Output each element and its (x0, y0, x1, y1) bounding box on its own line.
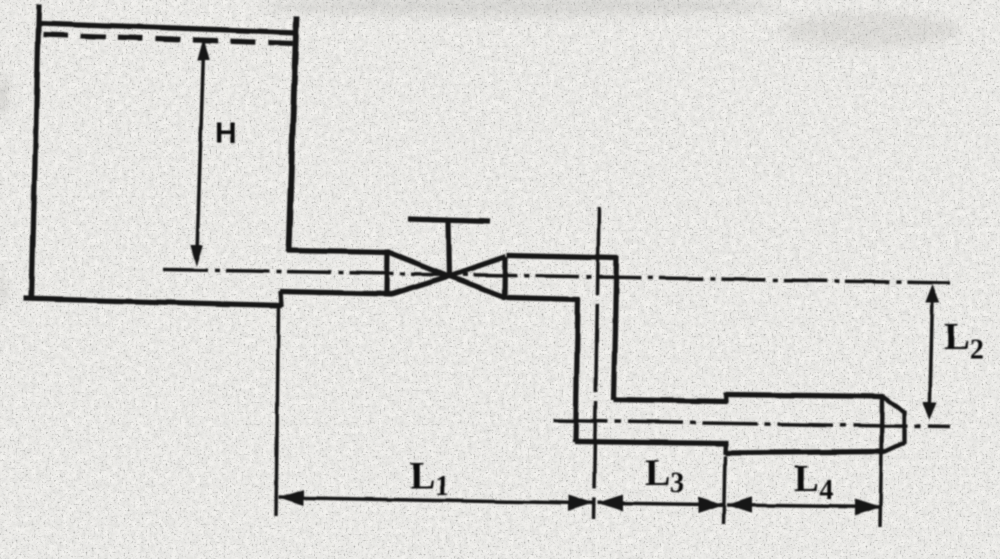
extension line at nozzle end (L4 right) (880, 452, 882, 527)
tank bottom to pipe step (281, 291, 282, 307)
extension line at elbow (L1/L3 boundary) (594, 207, 600, 519)
dimension L4 arrowhead right (855, 499, 880, 515)
nozzle end face (879, 395, 884, 452)
nozzle sleeve top wall (726, 395, 884, 397)
smudge top edge (260, 0, 780, 16)
pipe top wall tank to valve (287, 251, 388, 253)
dimension L4 line (727, 505, 880, 507)
extension line below tank (L1 left) (276, 306, 279, 516)
tank water level (dashed) (43, 35, 294, 44)
valve body lower-right diagonal (449, 276, 506, 298)
dimension L3 arrowhead left (598, 495, 623, 511)
dimension L2 line (vertical) (930, 297, 933, 408)
dimension H arrowhead down (190, 245, 202, 267)
dimension L2 arrowhead up (925, 285, 939, 304)
tank left wall (32, 4, 40, 301)
lower pipe centerline (dash-dot) (553, 421, 950, 428)
lower pipe bottom wall (575, 442, 728, 444)
upper pipe centerline (dash-dot) (164, 270, 951, 284)
dimension L3 line (598, 503, 724, 505)
valve left flange (384, 250, 390, 292)
elbow inner wall (vertical) (576, 298, 579, 442)
valve handle bar (408, 219, 490, 222)
lower pipe top wall (614, 400, 728, 402)
dimension L1 arrowhead right (568, 495, 593, 511)
pipe bottom wall tank to valve (280, 292, 392, 295)
extension line at sleeve start (L3/L4 boundary) (724, 456, 726, 524)
pipe bottom wall valve to elbow (507, 298, 580, 300)
nozzle tip face (902, 411, 906, 444)
nozzle taper top (883, 397, 905, 413)
smudge top right (780, 12, 960, 48)
dimension H arrow shaft (197, 52, 204, 252)
dimension L4 arrowhead left (727, 497, 752, 513)
elbow outer wall (vertical) (614, 257, 617, 401)
nozzle taper bottom (884, 443, 905, 453)
valve body upper-left diagonal (387, 252, 449, 277)
smudge left edge (0, 77, 8, 113)
tank right wall (289, 16, 297, 252)
pipe top wall valve to elbow (507, 256, 618, 259)
dimension L1 line (279, 498, 594, 504)
nozzle sleeve step up (724, 393, 729, 404)
dimension L3 arrowhead right (699, 497, 724, 513)
valve body lower-left diagonal (392, 276, 450, 294)
svg-text:H: H (215, 117, 237, 150)
nozzle sleeve step down (723, 442, 728, 455)
nozzle sleeve bottom wall (725, 452, 885, 454)
valve stem (449, 221, 450, 277)
smudge left edge lower (0, 274, 6, 306)
dimension L2 arrowhead down (923, 402, 937, 421)
valve body upper-right diagonal (449, 257, 506, 277)
dimension L1 arrowhead left (279, 490, 304, 506)
valve right flange (502, 257, 508, 300)
dimension H arrowhead up (197, 38, 209, 61)
tank bottom (24, 299, 283, 306)
tank water surface (solid) (39, 23, 296, 33)
